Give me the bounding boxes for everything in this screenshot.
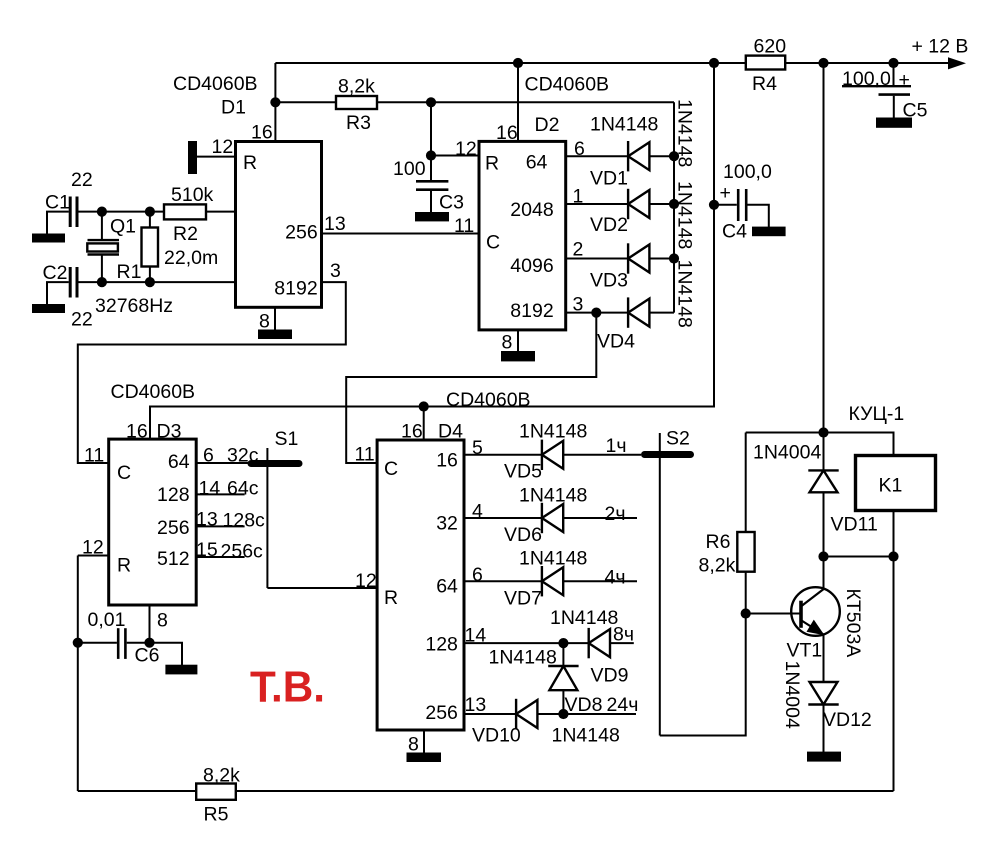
- wire D4 pin16 drop: [423, 407, 425, 441]
- resistor R2: [164, 204, 206, 219]
- wire base node to VT1: [746, 613, 801, 615]
- node dot R3 right / C3: [426, 97, 436, 107]
- wire D3 128c stub: [196, 525, 244, 527]
- wire C3 drop: [430, 102, 432, 181]
- crystal Q1: [87, 240, 119, 254]
- svg-text:4: 4: [472, 501, 483, 523]
- wire C1 left to ground: [47, 212, 69, 234]
- svg-text:S1: S1: [275, 428, 299, 450]
- wire VD1 row: [566, 155, 674, 157]
- node dot C5 on +12 rail: [888, 58, 898, 68]
- svg-text:C: C: [486, 232, 500, 254]
- svg-text:CD4060B: CD4060B: [446, 389, 531, 411]
- svg-text:14: 14: [199, 478, 221, 500]
- svg-text:VD5: VD5: [504, 461, 542, 483]
- svg-text:+: +: [899, 69, 910, 91]
- node dot VD8 bottom: [558, 709, 568, 719]
- node dot rail x714 on +12 rail: [709, 58, 719, 68]
- resistor R1: [142, 228, 159, 267]
- wire R1 bottom stem: [149, 267, 151, 283]
- svg-text:C2: C2: [43, 262, 68, 284]
- svg-text:100: 100: [393, 158, 426, 180]
- wire C2 left to ground: [47, 282, 69, 304]
- node dot Q1 bottom: [97, 277, 107, 287]
- node dot rail x823 on +12 rail: [818, 58, 828, 68]
- svg-text:R5: R5: [204, 804, 229, 826]
- svg-text:C3: C3: [439, 192, 464, 214]
- ground C5: [876, 118, 912, 128]
- wire left reset drop x78: [77, 556, 79, 792]
- wire D3 256c stub: [196, 556, 244, 558]
- node dot VD1 bus: [669, 151, 679, 161]
- node dot relay top: [818, 427, 828, 437]
- svg-text:100,0: 100,0: [842, 68, 891, 90]
- node dot C6 right / D3 pin8: [144, 638, 154, 648]
- ground C4: [752, 227, 786, 237]
- svg-text:R3: R3: [346, 112, 371, 134]
- svg-text:3: 3: [330, 260, 341, 282]
- wire S1 to D4 pin12: [267, 587, 377, 589]
- node dot Q1 top: [97, 207, 107, 217]
- wire VD9 row 8ch: [464, 642, 634, 644]
- svg-text:C4: C4: [722, 221, 747, 243]
- wire C5 bottom stem: [893, 96, 895, 118]
- svg-text:VD6: VD6: [504, 524, 542, 546]
- svg-text:CD4060B: CD4060B: [111, 381, 196, 403]
- svg-text:C6: C6: [135, 645, 160, 667]
- svg-text:R6: R6: [706, 531, 731, 553]
- svg-text:1: 1: [573, 186, 584, 208]
- svg-text:+: +: [720, 182, 731, 204]
- svg-text:11: 11: [454, 215, 474, 237]
- svg-text:VT1: VT1: [787, 640, 823, 662]
- svg-text:256: 256: [425, 702, 458, 724]
- svg-text:1N4148: 1N4148: [519, 421, 587, 443]
- svg-text:8,2k: 8,2k: [338, 76, 375, 98]
- wire S2 lever: [659, 433, 661, 736]
- svg-text:64: 64: [168, 451, 190, 473]
- capacitor C2: [70, 267, 77, 298]
- wire VD5 row 1ch: [464, 454, 641, 456]
- svg-text:512: 512: [157, 548, 190, 570]
- svg-text:128: 128: [425, 634, 458, 656]
- svg-text:12: 12: [355, 570, 377, 592]
- svg-text:8192: 8192: [510, 300, 553, 322]
- svg-text:R2: R2: [173, 223, 198, 245]
- transistor VT1: [791, 587, 840, 636]
- wire D3 32c row to S1: [196, 462, 251, 464]
- wire C6 right stem: [127, 642, 150, 644]
- wire D1 pin16 drop: [274, 63, 276, 142]
- diode VD3: [628, 243, 649, 273]
- switch S1: [251, 460, 299, 467]
- svg-text:24ч: 24ч: [607, 694, 639, 716]
- ground C2: [32, 304, 65, 313]
- wire relay top node: [746, 433, 894, 456]
- wire D1 pin12 stub: [197, 156, 236, 158]
- wire D1 pin8 stem: [274, 307, 276, 330]
- wire VD12 to ground: [823, 705, 825, 753]
- svg-text:256: 256: [285, 222, 318, 244]
- wire VD11 bottom stem: [823, 492, 825, 556]
- svg-text:C: C: [117, 462, 131, 484]
- svg-text:CD4060B: CD4060B: [525, 74, 610, 96]
- svg-text:14: 14: [465, 625, 487, 647]
- svg-text:64: 64: [526, 152, 548, 174]
- wire VD4 node to D4 pin11: [346, 313, 596, 463]
- ground C1: [32, 234, 65, 243]
- svg-text:K1: K1: [879, 475, 903, 497]
- wire base node down to S2: [660, 614, 746, 736]
- svg-text:VD12: VD12: [823, 709, 872, 731]
- svg-text:13: 13: [465, 694, 487, 716]
- svg-text:8,2k: 8,2k: [699, 555, 736, 577]
- svg-text:1N4004: 1N4004: [781, 661, 803, 729]
- svg-text:R1: R1: [117, 261, 142, 283]
- svg-text:D4: D4: [438, 421, 463, 443]
- svg-text:64: 64: [436, 576, 458, 598]
- svg-text:15: 15: [196, 539, 218, 561]
- capacitor C6: [118, 628, 125, 659]
- IC D2: [479, 141, 566, 330]
- diode VD9: [589, 628, 610, 658]
- svg-text:КУЦ-1: КУЦ-1: [849, 403, 905, 425]
- D1 pin12 level bar: [188, 141, 197, 174]
- diode VD11 vertical: [808, 470, 838, 492]
- svg-text:R: R: [243, 152, 257, 174]
- svg-text:0,01: 0,01: [88, 609, 126, 631]
- svg-text:КТ503А: КТ503А: [842, 589, 864, 658]
- svg-text:620: 620: [754, 36, 787, 58]
- svg-text:2ч: 2ч: [605, 503, 626, 525]
- svg-text:16: 16: [251, 122, 273, 144]
- svg-text:8ч: 8ч: [613, 624, 634, 646]
- wire R6 top drop: [745, 433, 747, 533]
- wire bottom rail: [78, 790, 894, 792]
- svg-text:13: 13: [196, 509, 218, 531]
- ground D3 pin8: [165, 665, 197, 675]
- svg-text:510k: 510k: [171, 184, 214, 206]
- resistor R4: [746, 56, 785, 70]
- wire Q1 bottom stem: [101, 255, 103, 283]
- wire K1 bottom stem: [893, 511, 895, 557]
- wire VD8 bottom stem: [562, 690, 564, 714]
- wire R1 top stem: [149, 212, 151, 228]
- wire C6 left stem: [78, 642, 117, 644]
- wire C1 to R2 node: [78, 211, 164, 213]
- wire C2 to D1 lower input: [78, 281, 235, 283]
- IC D3: [109, 439, 197, 605]
- svg-text:13: 13: [324, 213, 346, 235]
- capacitor C5: [842, 86, 911, 94]
- wire VD8 top stem: [562, 643, 564, 666]
- IC D4: [377, 440, 464, 730]
- wire +12V top rail: [275, 62, 948, 64]
- svg-text:16: 16: [401, 421, 423, 443]
- svg-text:16: 16: [496, 122, 518, 144]
- svg-text:128c: 128c: [223, 510, 266, 532]
- wire D2 pin16 drop: [517, 63, 519, 141]
- resistor R6: [737, 532, 754, 572]
- svg-text:+ 12 В: + 12 В: [912, 36, 969, 58]
- ground D2 pin8: [501, 351, 535, 361]
- svg-text:22: 22: [71, 169, 93, 191]
- node dot D1 pin16 / reset rail: [270, 97, 280, 107]
- diode VD8 vertical: [548, 666, 578, 690]
- diode VD10: [516, 699, 537, 729]
- node dot C6 left: [73, 638, 83, 648]
- wire VD2 row: [566, 203, 674, 205]
- svg-text:64c: 64c: [227, 478, 259, 500]
- +12V arrowhead: [948, 57, 966, 69]
- wire node C3 to D2 pin12: [431, 155, 479, 157]
- node dot VD2 bus: [669, 199, 679, 209]
- svg-text:D1: D1: [221, 97, 246, 119]
- svg-text:VD8: VD8: [565, 694, 603, 716]
- svg-text:VD1: VD1: [590, 168, 628, 190]
- svg-text:16: 16: [126, 421, 148, 443]
- wire D1 pin13 to D2 pin11: [322, 233, 480, 235]
- wire VD10 row 24ch: [464, 713, 636, 715]
- svg-text:VD3: VD3: [590, 270, 628, 292]
- node dot VD11 bottom: [818, 551, 828, 561]
- IC D1: [236, 142, 322, 308]
- svg-text:256: 256: [157, 517, 190, 539]
- wire D3 64c stub: [196, 493, 244, 495]
- svg-text:1N4148: 1N4148: [550, 607, 618, 629]
- wire D4 pin8 stem: [423, 730, 425, 753]
- svg-text:1N4148: 1N4148: [519, 548, 587, 570]
- wire VT1 collector stem: [823, 557, 825, 589]
- node dot VD8 top: [558, 638, 568, 648]
- wire C3 plate to ground: [430, 191, 432, 213]
- node dot D4 pin16 on y406: [419, 401, 429, 411]
- node dot R1 bottom: [145, 277, 155, 287]
- svg-text:4096: 4096: [510, 255, 553, 277]
- ground D4 pin8: [407, 753, 442, 763]
- node dot VD3 bus: [669, 253, 679, 263]
- svg-text:12: 12: [212, 136, 234, 158]
- svg-text:R: R: [117, 555, 131, 577]
- wire VD4 row: [566, 312, 674, 314]
- wire C4 left stem: [714, 204, 737, 206]
- wire D1 pin3 to D3 pin11: [78, 282, 346, 463]
- svg-text:22,0m: 22,0m: [164, 247, 218, 269]
- node dot C4 on rail x714: [709, 200, 719, 210]
- svg-text:11: 11: [84, 445, 104, 467]
- svg-text:R4: R4: [752, 73, 777, 95]
- capacitor C4: [738, 189, 746, 221]
- resistor R3: [336, 96, 377, 109]
- svg-text:R: R: [485, 153, 499, 175]
- svg-text:16: 16: [436, 450, 458, 472]
- node dot C3 / D2 pin12: [426, 150, 436, 160]
- svg-text:2: 2: [573, 239, 584, 261]
- svg-text:11: 11: [355, 444, 375, 466]
- svg-text:3: 3: [573, 294, 584, 316]
- relay K1: [856, 456, 936, 511]
- svg-text:8: 8: [259, 311, 270, 333]
- wire right drop to bottom rail: [893, 557, 895, 792]
- svg-text:D3: D3: [157, 421, 182, 443]
- svg-text:C1: C1: [45, 192, 70, 214]
- diode VD12 vertical: [808, 682, 838, 705]
- svg-text:8: 8: [408, 734, 419, 756]
- diode VD2: [628, 189, 649, 219]
- diode VD6: [542, 503, 563, 533]
- diode VD5: [542, 440, 563, 470]
- ground D1 pin8: [258, 330, 292, 340]
- svg-text:CD4060B: CD4060B: [173, 73, 258, 95]
- svg-text:C5: C5: [903, 100, 928, 122]
- svg-text:Т.В.: Т.В.: [250, 663, 325, 712]
- ground C3: [415, 212, 449, 221]
- svg-text:128: 128: [157, 484, 190, 506]
- node dot R1 top: [145, 207, 155, 217]
- wire R6 to base node: [745, 572, 747, 614]
- svg-text:8192: 8192: [274, 278, 317, 300]
- wire C4 right to ground: [747, 205, 769, 227]
- svg-text:VD4: VD4: [597, 331, 635, 353]
- wire node K1-VD11 link: [824, 556, 894, 558]
- svg-text:1N4004: 1N4004: [753, 442, 821, 464]
- node dot VD4 branch: [591, 308, 601, 318]
- svg-text:C: C: [384, 458, 398, 480]
- svg-text:32: 32: [436, 513, 458, 535]
- wire diode bus x674: [673, 102, 675, 312]
- svg-text:12: 12: [455, 138, 477, 160]
- svg-text:VD10: VD10: [472, 725, 521, 747]
- svg-text:256c: 256c: [221, 541, 264, 563]
- wire C5 top stem: [893, 63, 895, 86]
- svg-text:VD9: VD9: [591, 665, 629, 687]
- diode VD7: [542, 566, 563, 596]
- wire VT1 emitter down: [823, 635, 825, 683]
- node dot D2 pin16 on +12 rail: [513, 58, 523, 68]
- wire S1 lever: [266, 448, 268, 588]
- svg-text:32c: 32c: [227, 445, 259, 467]
- svg-text:1N4148: 1N4148: [519, 485, 587, 507]
- svg-text:S2: S2: [666, 428, 690, 450]
- svg-text:12: 12: [82, 537, 104, 559]
- svg-text:5: 5: [472, 437, 483, 459]
- svg-text:8: 8: [157, 610, 168, 632]
- switch S2: [645, 451, 691, 458]
- svg-text:6: 6: [472, 564, 483, 586]
- svg-text:1N4148: 1N4148: [674, 99, 696, 167]
- diode VD4: [628, 297, 649, 327]
- svg-text:22: 22: [71, 309, 93, 331]
- wire D2 pin8 stem: [517, 330, 519, 352]
- svg-text:8,2k: 8,2k: [203, 765, 240, 787]
- svg-text:1N4148: 1N4148: [552, 725, 620, 747]
- svg-text:1ч: 1ч: [606, 435, 627, 457]
- wire VD3 row: [566, 258, 674, 260]
- capacitor C3: [416, 181, 448, 189]
- svg-text:2048: 2048: [510, 199, 553, 221]
- wire D3 pin12 stub: [78, 555, 109, 557]
- svg-text:VD11: VD11: [831, 514, 878, 536]
- svg-text:32768Hz: 32768Hz: [95, 295, 173, 317]
- svg-text:VD7: VD7: [504, 588, 542, 610]
- svg-text:Q1: Q1: [110, 216, 136, 238]
- svg-text:4ч: 4ч: [605, 567, 626, 589]
- capacitor C1: [70, 197, 77, 228]
- svg-text:D2: D2: [535, 114, 560, 136]
- wire rail x823: [823, 63, 825, 433]
- svg-text:6: 6: [203, 445, 214, 467]
- svg-text:1N4148: 1N4148: [674, 181, 696, 249]
- wire VD6 row 2ch: [464, 517, 637, 519]
- svg-text:1N4148: 1N4148: [489, 647, 557, 669]
- wire rail x714: [150, 63, 714, 439]
- svg-text:1N4148: 1N4148: [590, 114, 658, 136]
- wire reset rail y102: [275, 101, 674, 103]
- svg-text:100,0: 100,0: [723, 161, 772, 183]
- svg-text:1N4148: 1N4148: [674, 260, 696, 328]
- wire R2 to D1: [206, 211, 236, 213]
- node dot K1 bottom: [888, 551, 898, 561]
- wire Q1 top stem: [101, 212, 103, 240]
- diode VD1: [628, 141, 649, 171]
- resistor R5: [196, 784, 236, 800]
- svg-text:R: R: [384, 587, 398, 609]
- svg-text:VD2: VD2: [590, 214, 628, 236]
- node dot VT1 base: [741, 608, 751, 618]
- wire D3 pin8 to ground: [150, 605, 183, 665]
- svg-text:8: 8: [502, 332, 513, 354]
- svg-text:6: 6: [574, 138, 585, 160]
- wire VD7 row 4ch: [464, 580, 637, 582]
- ground VD12: [807, 752, 841, 762]
- wire VD11 top stem: [823, 433, 825, 471]
